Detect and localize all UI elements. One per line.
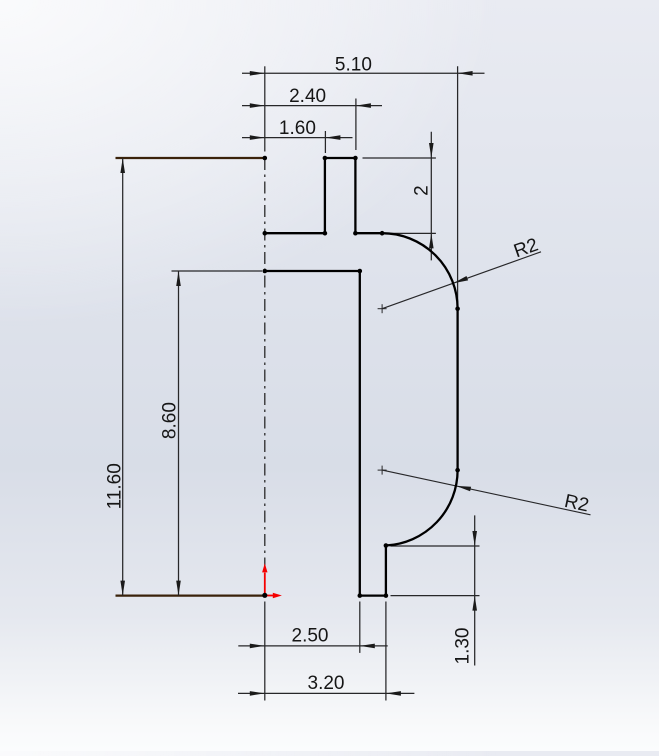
extension line bottom shared 11.60/8.60 (brown model edge) [116, 594, 265, 596]
dimension 2 line and arrows [429, 132, 434, 261]
dimension 11.60 text [105, 463, 126, 509]
profile tab left edge [324, 158, 326, 233]
dimension 2.40 line and arrows [242, 103, 382, 108]
extension line right of dimension 3.20 [385, 602, 387, 701]
dimension 5.10 line and arrows [242, 71, 485, 76]
dimension 5.10 text [335, 55, 372, 76]
profile inner vertical edge [359, 271, 361, 596]
profile second edge [265, 270, 360, 272]
profile top edge right segment [355, 232, 382, 234]
profile upper fillet arc R2 [382, 233, 458, 309]
svg-text:8.60: 8.60 [159, 402, 180, 439]
dimension 3.20 line and arrows [238, 691, 414, 696]
svg-text:2: 2 [411, 185, 432, 196]
profile top edge left segment [265, 232, 325, 234]
dimension 2.40 text [289, 86, 326, 107]
svg-text:3.20: 3.20 [308, 673, 345, 694]
dimension 1.60 line and arrows [242, 135, 353, 140]
centerline (revolve axis, dash-dot) [264, 158, 266, 596]
extension line left shared (5.10/2.40/1.60) at centerline [264, 66, 266, 151]
radius dimension R2 lower leader [382, 470, 590, 515]
dimension 8.60 line and arrows [176, 271, 181, 596]
dimension 2.50 line and arrows [238, 644, 387, 649]
radius dimension R2 upper text [511, 234, 541, 262]
origin X axis red arrow [265, 593, 282, 598]
origin point [262, 593, 267, 598]
extension line right of dimension 2.40 [355, 99, 357, 151]
sketch endpoints [263, 156, 460, 598]
profile tab top edge [325, 157, 356, 159]
extension line top of dimension 11.60 (brown model edge) [116, 157, 265, 159]
extension line below origin shared (2.50/3.20) [264, 602, 266, 701]
dimension 11.60 line and arrows [120, 158, 125, 596]
svg-text:1.30: 1.30 [452, 628, 473, 665]
extension line top of dimension 2 [363, 157, 436, 159]
extension line bottom of dimension 1.30 [391, 595, 480, 597]
center mark of lower arc [378, 466, 387, 475]
center mark of upper arc [378, 304, 387, 313]
profile lower fillet arc R2 [386, 470, 458, 545]
dimension 2 text [411, 185, 432, 196]
svg-text:R2: R2 [563, 491, 591, 517]
dimension 2.50 text [292, 626, 329, 647]
profile tab right edge [354, 158, 356, 233]
svg-text:1.60: 1.60 [279, 118, 316, 139]
extension line top of dimension 8.60 [172, 270, 263, 272]
profile step edge [385, 546, 387, 596]
dimension 3.20 text [308, 673, 345, 694]
svg-text:2.40: 2.40 [289, 86, 326, 107]
svg-text:2.50: 2.50 [292, 626, 329, 647]
dimension 1.30 line and arrows [472, 515, 477, 665]
svg-text:5.10: 5.10 [335, 55, 372, 76]
dimension 1.30 text [452, 628, 473, 665]
extension line top of dimension 1.30 [391, 545, 480, 547]
svg-text:R2: R2 [511, 234, 541, 262]
profile bottom edge [360, 594, 386, 596]
origin Y axis red arrow [262, 563, 267, 595]
profile right edge [456, 309, 458, 470]
extension line right of dimension 2.50 [359, 602, 361, 653]
extension line right of dimension 1.60 [324, 131, 326, 153]
extension line right of dimension 5.10 [457, 66, 459, 306]
dimension 1.60 text [279, 118, 316, 139]
dimension 8.60 text [159, 402, 180, 439]
radius dimension R2 upper leader [382, 252, 541, 309]
radius dimension R2 lower text [563, 491, 591, 517]
extension line bottom of dimension 2 [384, 232, 436, 234]
svg-text:11.60: 11.60 [105, 463, 126, 509]
